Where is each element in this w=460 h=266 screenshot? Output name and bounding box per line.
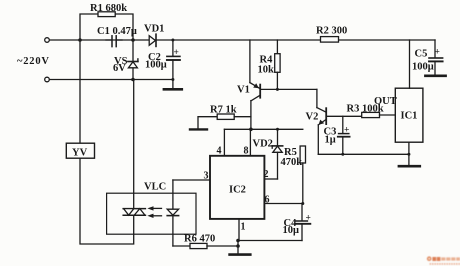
ground (C5) — [425, 75, 445, 78]
svg-text:8: 8 — [244, 146, 249, 157]
ground (C2) — [164, 88, 182, 91]
resistor R7 — [198, 114, 251, 129]
resistor R4 — [275, 40, 280, 89]
svg-text:IC1: IC1 — [401, 111, 418, 122]
junction R6/ground node — [236, 244, 240, 248]
capacitor C3 — [338, 116, 350, 154]
transistor V1 — [250, 40, 260, 101]
relay YV — [66, 143, 94, 158]
wire: YV branch — [79, 40, 81, 143]
ground (IC1) — [399, 165, 420, 168]
wire: V1 collector down — [250, 101, 252, 130]
junction R1/C1/VS node — [131, 38, 135, 42]
svg-text:YV: YV — [72, 148, 88, 159]
wire: IC1 gnd lead — [408, 142, 410, 166]
wire: pin2 lead — [264, 178, 277, 180]
wire: pin4 lead — [223, 129, 225, 156]
capacitor C5 — [429, 40, 443, 75]
wire: R1 loop — [80, 14, 133, 40]
IC2 box — [210, 156, 264, 219]
junction R5/C4/pin6 node — [301, 202, 304, 205]
svg-text:+: + — [435, 48, 440, 58]
junction C4 return node — [236, 239, 240, 243]
svg-text:2: 2 — [264, 169, 269, 180]
svg-text:6V: 6V — [113, 63, 126, 74]
svg-text:+: + — [174, 48, 179, 58]
ground (R7) — [190, 128, 207, 130]
capacitor C1 — [106, 36, 122, 47]
svg-text:4: 4 — [217, 146, 222, 157]
svg-text:R6 470: R6 470 — [184, 234, 215, 245]
wire: R3 to IC1 — [380, 114, 396, 116]
svg-text:470k: 470k — [281, 157, 303, 168]
capacitor C2 — [167, 40, 180, 88]
svg-text:~220V: ~220V — [17, 56, 50, 67]
wire: bottom mains rail — [50, 79, 173, 81]
svg-text:10μ: 10μ — [283, 225, 300, 236]
junction N-rail/C2 ground node — [171, 78, 174, 81]
terminal N — [45, 77, 50, 82]
wire: V1 base rail — [260, 88, 317, 90]
zener VS — [128, 40, 138, 80]
terminal L — [45, 38, 50, 43]
junction C3 bottom node — [341, 153, 344, 156]
resistor R1 — [98, 12, 115, 17]
wire: IC1 Vcc lead — [409, 40, 411, 88]
wire: V2 base rail — [326, 115, 362, 117]
svg-text:VLC: VLC — [144, 182, 166, 193]
svg-text:C5: C5 — [415, 49, 428, 60]
svg-text:VD2: VD2 — [253, 139, 273, 150]
svg-text:R7 1k: R7 1k — [210, 105, 237, 116]
svg-text:R2 300: R2 300 — [316, 26, 347, 37]
svg-text:+: + — [306, 214, 311, 224]
wire: pin8 lead — [249, 129, 251, 156]
wire: emitter/ground rail to IC1 — [318, 153, 409, 155]
junction IC1 ground node — [407, 153, 410, 156]
junction VS/triac node — [131, 78, 135, 82]
svg-text:3: 3 — [204, 171, 209, 182]
svg-text:IC2: IC2 — [229, 185, 246, 196]
resistor R6 — [173, 243, 238, 248]
wire: C4 return — [238, 240, 302, 242]
wire: pin6 lead — [264, 203, 302, 205]
svg-text:100μ: 100μ — [412, 62, 434, 73]
junction R1/C1 left node — [78, 38, 82, 42]
junction VD1/C2 node — [171, 39, 174, 42]
ground (IC2) — [230, 253, 251, 256]
svg-text:100μ: 100μ — [145, 60, 167, 71]
wire: Vcc rail to 555 — [224, 128, 302, 130]
watermark logo — [427, 256, 460, 264]
diode VD1 — [149, 34, 156, 46]
wire: triac top lead — [133, 80, 135, 209]
IC1 box — [395, 88, 423, 142]
svg-text:1μ: 1μ — [325, 135, 336, 146]
junction R4/V1 base node — [276, 88, 279, 91]
light arrows — [147, 206, 161, 218]
optocoupler VLC box — [107, 193, 196, 234]
svg-text:VD1: VD1 — [144, 24, 164, 35]
svg-text:C1 0.47μ: C1 0.47μ — [97, 26, 137, 37]
wire: pin3 to LED — [173, 179, 210, 181]
svg-text:V2: V2 — [306, 112, 319, 123]
resistor R5 — [300, 146, 305, 204]
junction V1 collector / pins 4-8 node — [249, 128, 253, 132]
svg-text:10k: 10k — [258, 65, 275, 76]
svg-text:V1: V1 — [237, 85, 250, 96]
svg-text:1: 1 — [241, 222, 246, 233]
svg-text:R1 680k: R1 680k — [90, 3, 127, 14]
svg-text:+: + — [344, 126, 349, 136]
transistor V2 — [317, 89, 326, 154]
wire: top main rail — [50, 39, 436, 41]
triac of VLC — [123, 209, 145, 216]
resistor R3 — [362, 112, 380, 117]
junction VD2 top node — [276, 128, 279, 131]
diode VD2 — [272, 129, 283, 179]
wire: YV to triac — [80, 158, 134, 244]
svg-text:R3 100k: R3 100k — [347, 104, 384, 115]
capacitor C4 — [296, 204, 311, 241]
wire: pin1 / ground stem — [238, 219, 240, 241]
svg-text:6: 6 — [265, 195, 270, 206]
LED of VLC — [167, 180, 178, 246]
resistor R2 — [321, 37, 339, 43]
